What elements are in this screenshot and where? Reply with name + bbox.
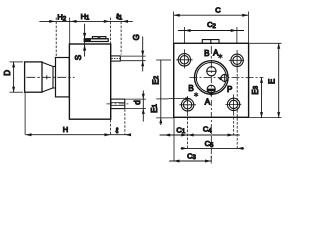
center cross tick bbox=[46, 75, 48, 79]
bolt hole BR bbox=[225, 94, 241, 113]
C1 left arrow bbox=[164, 134, 170, 137]
E dimension line bbox=[278, 43, 280, 117]
centerline knob axis bbox=[26, 76, 74, 78]
D arrow down bbox=[12, 87, 15, 93]
E3 dimension line bbox=[261, 77, 263, 117]
H left arrow bbox=[25, 133, 31, 136]
D extension top bbox=[10, 61, 24, 63]
H right arrow bbox=[104, 133, 110, 136]
svg-text:ℓ: ℓ bbox=[115, 126, 119, 135]
svg-text:A: A bbox=[213, 49, 219, 58]
E3 top arrow bbox=[260, 77, 263, 83]
svg-text:d: d bbox=[133, 100, 142, 104]
connector dark block bbox=[84, 39, 90, 42]
D arrow up bbox=[12, 62, 15, 68]
ext pin end down bbox=[124, 109, 126, 135]
connector bump 2 bbox=[100, 37, 106, 39]
C3 right arrow bbox=[205, 160, 211, 163]
svg-text:E3: E3 bbox=[251, 85, 260, 94]
svg-text:E1: E1 bbox=[150, 104, 159, 113]
hole tangent ext line + arrow bbox=[169, 98, 186, 100]
flange plate bbox=[56, 58, 70, 97]
svg-text:E: E bbox=[268, 79, 277, 84]
svg-text:C5: C5 bbox=[205, 139, 214, 149]
H1 right arrow bbox=[104, 20, 110, 23]
connector bump 1 bbox=[92, 37, 98, 39]
port P arrow bbox=[218, 77, 221, 80]
svg-text:A: A bbox=[205, 98, 211, 107]
central ring inner bbox=[196, 63, 226, 93]
C3 left arrow bbox=[173, 160, 179, 163]
E top tick (TL hole ext) bbox=[156, 59, 171, 61]
C3 dimension line bbox=[169, 160, 211, 162]
svg-text:G: G bbox=[132, 34, 141, 40]
vertical centerline lower extension bbox=[210, 100, 212, 161]
E bottom ext bbox=[250, 117, 282, 119]
plate bottom ext left bbox=[156, 117, 173, 119]
knob cylinder bbox=[25, 62, 42, 92]
ext BR hole down bbox=[233, 113, 235, 136]
lower pin centerline bbox=[107, 103, 129, 105]
E2 E1 dimension line bbox=[160, 60, 162, 125]
C1 C4 dimension line bbox=[160, 134, 240, 136]
svg-text:P: P bbox=[227, 85, 232, 94]
upper pin thread line bbox=[112, 58, 120, 60]
C4 right arrow bbox=[228, 134, 234, 137]
port A bbox=[207, 85, 215, 93]
tangent arrow bbox=[185, 97, 191, 100]
port A dark chord bbox=[207, 89, 215, 92]
svg-text:ℓ1: ℓ1 bbox=[115, 12, 122, 22]
E bottom arrow bbox=[277, 112, 280, 118]
G extension lines bbox=[121, 56, 146, 61]
E mid tick bbox=[156, 98, 169, 100]
C ext right bbox=[247, 12, 249, 44]
d dimension line bbox=[142, 91, 144, 122]
G dimension line bbox=[142, 37, 144, 72]
E top arrow bbox=[277, 43, 280, 49]
E3 bottom arrow bbox=[260, 112, 263, 118]
ext line flange left bbox=[55, 18, 57, 57]
G arrow upper bbox=[141, 51, 144, 57]
main body bbox=[69, 44, 110, 119]
G arrow lower bbox=[141, 61, 144, 66]
C1/C4 mid arrows bbox=[181, 134, 193, 137]
svg-text:S: S bbox=[74, 55, 83, 60]
C5 right arrow bbox=[237, 147, 243, 150]
ext TR hole long down bbox=[236, 70, 238, 148]
ext line body left up bbox=[69, 18, 71, 44]
tab divider bbox=[210, 40, 212, 44]
l right arrow bbox=[125, 133, 131, 136]
bottom dimension line H l bbox=[26, 134, 131, 136]
C2 ext left bbox=[183, 27, 185, 43]
C ext left bbox=[173, 12, 175, 44]
svg-text:C3: C3 bbox=[187, 151, 196, 161]
l1 right arrow bbox=[122, 20, 128, 23]
svg-text:D: D bbox=[3, 70, 12, 76]
C2 right arrow bbox=[231, 29, 237, 32]
C left arrow bbox=[174, 14, 180, 17]
lower threaded pin bbox=[111, 99, 125, 109]
svg-text:H2: H2 bbox=[57, 13, 66, 23]
ext body right down bbox=[110, 120, 112, 135]
svg-text:H1: H1 bbox=[81, 12, 90, 22]
H2 left arrow bbox=[49, 20, 55, 23]
lower pin thread lines bbox=[111, 102, 124, 105]
D extension bottom bbox=[10, 91, 24, 93]
ext plate left down bbox=[173, 118, 175, 161]
centerline down arrow bbox=[210, 94, 213, 98]
svg-text:C2: C2 bbox=[207, 20, 216, 30]
S dimension line bbox=[84, 24, 86, 57]
asterisk top bbox=[218, 54, 222, 59]
horizontal centerline bbox=[190, 76, 264, 78]
port P vertical tick bbox=[224, 74, 226, 82]
svg-text:B: B bbox=[188, 84, 193, 93]
C2 left arrow bbox=[184, 29, 190, 32]
d arrow upper bbox=[142, 94, 145, 99]
port B bbox=[207, 67, 216, 76]
E top ext bbox=[250, 42, 282, 44]
d extension lines bbox=[126, 99, 147, 109]
central ring outer bbox=[195, 61, 229, 95]
S arrow up bbox=[83, 45, 86, 51]
S arrow down bbox=[83, 33, 86, 39]
svg-text:B: B bbox=[204, 49, 209, 58]
ext knob end down bbox=[24, 92, 26, 135]
d arrow lower bbox=[142, 109, 145, 114]
svg-text:H: H bbox=[63, 125, 68, 134]
bolt hole TR bbox=[229, 50, 244, 70]
C5 left arrow bbox=[181, 147, 187, 150]
upper terminal pin bbox=[111, 56, 121, 61]
vertical centerline bbox=[210, 46, 212, 97]
mounting plate bbox=[174, 43, 249, 117]
H1 left arrow bbox=[70, 20, 76, 23]
C3 right ext tick bbox=[210, 156, 212, 164]
asterisk bottom-left bbox=[194, 92, 198, 97]
bolt hole TL bbox=[176, 49, 192, 68]
C right arrow bbox=[242, 14, 248, 17]
svg-text:E2: E2 bbox=[152, 75, 161, 84]
svg-text:C: C bbox=[215, 5, 221, 14]
ext line pin end up bbox=[120, 18, 122, 55]
svg-text:C1: C1 bbox=[176, 125, 185, 135]
bolt hole BL bbox=[179, 96, 196, 114]
neck cone bbox=[42, 62, 56, 92]
port P bbox=[221, 74, 228, 81]
connector bar on top bbox=[84, 39, 108, 42]
top dimension line H2 H1 l1 bbox=[39, 20, 132, 22]
port B chord bbox=[206, 70, 216, 72]
C5 dimension line bbox=[181, 147, 245, 149]
C dimension line bbox=[174, 14, 249, 16]
D dimension line bbox=[13, 62, 15, 92]
name tab on top bbox=[202, 40, 219, 44]
C2 dimension line bbox=[178, 30, 244, 32]
ext line body right up bbox=[110, 18, 112, 44]
E1 bottom arrow bbox=[159, 118, 162, 124]
C2 ext right bbox=[236, 27, 238, 43]
ext BL hole down bbox=[187, 114, 189, 149]
